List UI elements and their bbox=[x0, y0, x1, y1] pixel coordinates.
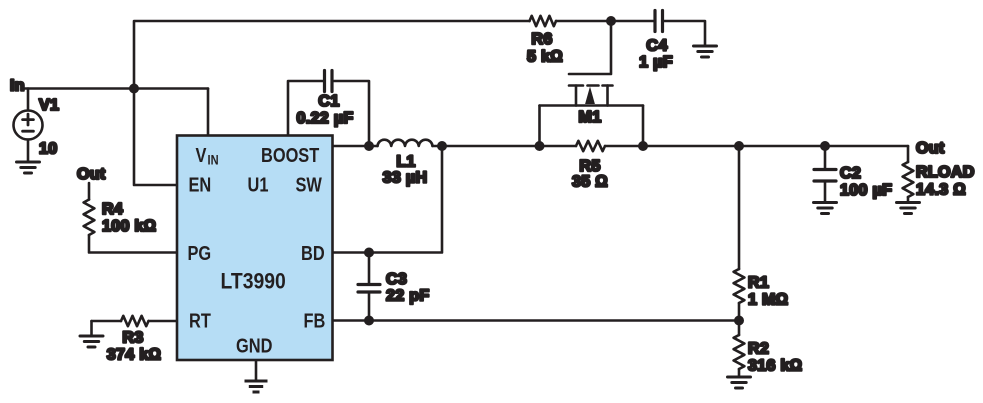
transistor M1 (MOSFET) bbox=[540, 21, 644, 146]
inductor L1 bbox=[378, 140, 433, 146]
svg-text:C3: C3 bbox=[386, 271, 407, 288]
svg-text:In: In bbox=[10, 78, 25, 95]
node output/R1 junction bbox=[734, 141, 744, 151]
svg-text:35 Ω: 35 Ω bbox=[572, 174, 608, 191]
pin label BD bbox=[301, 241, 325, 264]
svg-text:10: 10 bbox=[39, 141, 58, 158]
node C2 junction bbox=[820, 141, 830, 151]
svg-text:M1: M1 bbox=[579, 109, 602, 126]
svg-text:SW: SW bbox=[296, 173, 323, 196]
svg-text:R2: R2 bbox=[748, 341, 769, 358]
svg-text:V1: V1 bbox=[39, 97, 59, 114]
node FB/R1/R2 junction bbox=[734, 316, 744, 326]
svg-text:R4: R4 bbox=[102, 201, 123, 218]
svg-text:R5: R5 bbox=[579, 158, 600, 175]
svg-text:1 MΩ: 1 MΩ bbox=[748, 292, 788, 309]
voltage source V1 bbox=[27, 89, 30, 111]
svg-text:33 µH: 33 µH bbox=[383, 170, 428, 187]
svg-text:BOOST: BOOST bbox=[261, 143, 319, 166]
node M1 left connection bbox=[535, 141, 545, 151]
resistor R3 and RT wire bbox=[92, 320, 122, 323]
capacitor C2 bbox=[824, 146, 827, 168]
svg-text:5 kΩ: 5 kΩ bbox=[527, 49, 563, 66]
ground (IC GND) bbox=[245, 381, 268, 392]
node gate of M1 / R6 / C4 junction bbox=[606, 16, 616, 26]
wire BOOST output rail bbox=[333, 145, 378, 148]
svg-text:BD: BD bbox=[301, 241, 325, 264]
wire BD branch bbox=[333, 146, 443, 253]
svg-text:IN: IN bbox=[208, 152, 219, 167]
wire to VIN pin bbox=[207, 89, 210, 136]
pin label SW bbox=[296, 173, 323, 196]
wire FB line bbox=[333, 319, 740, 322]
pin label EN bbox=[189, 173, 212, 196]
svg-text:1 µF: 1 µF bbox=[639, 54, 673, 71]
node C1/rail junction bbox=[364, 141, 374, 151]
svg-text:0.22 µF: 0.22 µF bbox=[296, 110, 353, 127]
svg-text:RLOAD: RLOAD bbox=[916, 164, 975, 181]
svg-text:Out: Out bbox=[77, 166, 106, 183]
svg-text:GND: GND bbox=[236, 334, 272, 357]
svg-text:C4: C4 bbox=[646, 38, 667, 55]
svg-text:C2: C2 bbox=[840, 165, 861, 182]
wire top rail from input node to R6 bbox=[134, 21, 530, 89]
designator U1 bbox=[248, 173, 269, 196]
svg-text:PG: PG bbox=[188, 241, 212, 264]
node M1 right connection bbox=[638, 141, 648, 151]
wire R6 to C4 bbox=[556, 20, 653, 23]
ground (RLOAD) bbox=[897, 203, 920, 214]
svg-text:RT: RT bbox=[189, 309, 211, 332]
ground (R2) bbox=[728, 377, 751, 388]
wire input node down to EN pin bbox=[134, 89, 177, 186]
svg-text:14.3 Ω: 14.3 Ω bbox=[916, 182, 966, 199]
wire R3 to ground bbox=[90, 321, 93, 335]
svg-text:EN: EN bbox=[189, 173, 212, 196]
pin label PG bbox=[188, 241, 212, 264]
svg-text:FB: FB bbox=[304, 309, 326, 332]
node L1 right junction bbox=[437, 141, 447, 151]
svg-text:22 pF: 22 pF bbox=[386, 288, 430, 305]
ground (C2) bbox=[814, 203, 837, 214]
svg-text:R6: R6 bbox=[531, 31, 552, 48]
svg-text:R3: R3 bbox=[122, 330, 143, 347]
pin label BOOST bbox=[261, 143, 319, 166]
svg-text:U1: U1 bbox=[248, 173, 269, 196]
node input junction bbox=[129, 84, 139, 94]
node C3 bottom / FB junction bbox=[364, 316, 374, 326]
pin label VIN bbox=[196, 143, 208, 166]
wire rail L1 to R5 bbox=[433, 145, 577, 148]
pin label RT bbox=[189, 309, 211, 332]
capacitor C1 bbox=[288, 81, 323, 136]
wire C4 to ground bbox=[664, 21, 705, 45]
svg-text:LT3990: LT3990 bbox=[221, 269, 286, 293]
resistor R5 bbox=[576, 141, 605, 151]
ground (R3) bbox=[80, 336, 103, 347]
svg-text:316 kΩ: 316 kΩ bbox=[748, 358, 802, 375]
resistor R6 bbox=[530, 16, 557, 26]
wire rail R5 to output bbox=[605, 145, 908, 148]
svg-text:Out: Out bbox=[916, 140, 945, 157]
IC name LT3990 bbox=[221, 269, 286, 293]
IC GND pin wire to ground bbox=[255, 360, 258, 380]
svg-text:L1: L1 bbox=[396, 154, 415, 171]
node C3 top junction bbox=[364, 248, 374, 258]
capacitor C4 bbox=[655, 11, 663, 32]
resistor R2 bbox=[738, 321, 741, 336]
ground (C4) bbox=[694, 46, 717, 57]
svg-text:100 µF: 100 µF bbox=[840, 182, 892, 199]
capacitor C3 bbox=[368, 253, 371, 284]
svg-text:R1: R1 bbox=[748, 275, 769, 292]
pin label GND bbox=[236, 334, 272, 357]
resistor R1 bbox=[738, 146, 741, 269]
svg-text:100 kΩ: 100 kΩ bbox=[102, 218, 156, 235]
svg-text:374 kΩ: 374 kΩ bbox=[107, 347, 161, 364]
wire In to input node bbox=[25, 87, 208, 90]
ground (V1) bbox=[17, 162, 40, 173]
svg-text:V: V bbox=[196, 143, 208, 166]
wire R4 to PG pin bbox=[89, 235, 177, 253]
op-amp U1 IC LT3990 body bbox=[177, 136, 333, 361]
pin label FB bbox=[304, 309, 326, 332]
svg-text:C1: C1 bbox=[318, 93, 339, 110]
